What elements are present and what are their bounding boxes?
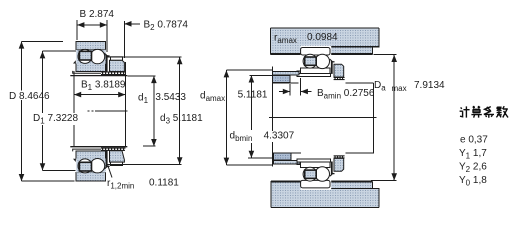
svg-text:5.1181: 5.1181 <box>238 90 268 101</box>
right view: ball left bottom <box>303 167 317 181</box>
svg-text:Y1 1,7: Y1 1,7 <box>459 148 487 161</box>
left view: sleeve thread teeth top <box>101 72 126 76</box>
left view: cage pocket rect top <box>79 51 91 60</box>
right view: washer tab top <box>331 61 333 74</box>
right view: sleeve step outline bottom <box>297 162 301 165</box>
char shu <box>496 106 508 117</box>
right view: ball right top <box>315 54 329 68</box>
left view: inner ring band bottom <box>76 151 105 159</box>
dimension r12min leader <box>108 166 112 178</box>
dimension d_bmin <box>248 75 273 158</box>
right view: shaft line top left <box>272 82 298 84</box>
left view: lock nut bottom <box>110 151 125 162</box>
right view: shaft line top right <box>346 82 374 84</box>
table: calculation factors heading (hand drawn CJK) <box>460 106 508 118</box>
svg-text:B 2.874: B 2.874 <box>80 9 115 20</box>
right view: lock nut top <box>334 64 344 77</box>
left view: band corner wedge bottom <box>73 159 76 162</box>
left view: shaft surface line bottom <box>70 146 127 148</box>
right view: sleeve step outline top <box>297 71 301 74</box>
right view: ball right bottom <box>315 167 329 181</box>
svg-text:Y2 2,6: Y2 2,6 <box>459 162 487 175</box>
left view: outer ring bottom band <box>76 173 106 181</box>
svg-text:Y0 1,8: Y0 1,8 <box>459 175 487 188</box>
left view: band corner wedge top <box>73 60 76 63</box>
left view: ball left top <box>78 49 92 63</box>
left view: nut washer slot bottom <box>111 162 123 165</box>
right view: sleeve protruding strip top <box>272 72 299 75</box>
left view: ball right top <box>90 49 104 63</box>
right view: bearing notch bottom (white) <box>301 180 332 190</box>
left view: cage pocket rect bottom <box>79 162 91 171</box>
left view: ball left bottom <box>78 159 92 173</box>
left view: sleeve step line top <box>73 71 101 73</box>
right view: nut teeth bottom <box>334 155 345 158</box>
left view: shaft surface line top <box>70 75 127 77</box>
svg-text:4.3307: 4.3307 <box>264 131 295 142</box>
svg-text:D 8.4646: D 8.4646 <box>9 91 50 102</box>
left view: sleeve thread teeth bottom <box>101 147 126 151</box>
left view: axis centerline <box>88 110 128 112</box>
dimension D1 <box>43 51 76 170</box>
right view: sleeve strip under bearing top <box>297 73 331 76</box>
dimension B1 <box>74 62 125 146</box>
right view: housing top block <box>271 28 379 55</box>
right view: housing bottom block <box>271 181 379 208</box>
right view: washer tab bottom <box>331 162 333 175</box>
right view: shaft left face <box>271 67 273 167</box>
left view: ball row ring fill bottom <box>76 158 105 172</box>
right view: shaft right end face <box>372 83 374 154</box>
svg-text:max: max <box>392 84 407 93</box>
right view: shaft line bottom left <box>272 152 301 154</box>
char ji3 <box>460 106 470 117</box>
dimension Da max <box>371 54 397 180</box>
svg-text:e 0,37: e 0,37 <box>460 135 488 146</box>
left view: washer tab bottom <box>106 150 108 167</box>
right view: axis centerline <box>269 117 377 119</box>
dimension B <box>77 20 107 52</box>
left view: nut washer slot top <box>111 57 123 60</box>
left view: sleeve step line bottom <box>73 149 101 151</box>
left view: washer tab top <box>106 55 108 72</box>
right view: cage pocket rect bottom <box>305 170 317 178</box>
dimension d1 <box>128 76 156 146</box>
svg-text:D1 7.3228: D1 7.3228 <box>33 113 78 126</box>
dimension D <box>22 41 75 181</box>
svg-text:0.1181: 0.1181 <box>149 178 179 189</box>
right view: bearing notch top (white) <box>301 46 332 56</box>
char xi <box>484 107 494 118</box>
right view: cage pocket rect top <box>305 57 317 65</box>
right view: inner ring band bottom white <box>301 162 330 168</box>
char suan <box>471 106 481 118</box>
dimension d3 <box>107 57 182 164</box>
right view: inner ring band top white <box>301 68 330 74</box>
right view: sleeve protruding strip bottom <box>273 161 300 164</box>
svg-text:0.0984: 0.0984 <box>307 32 338 43</box>
right view: outer ring bottom (white) <box>301 180 330 188</box>
left view: ball right bottom <box>90 159 104 173</box>
left view: inner ring band top <box>76 64 105 72</box>
right view: outer ring top (white) <box>301 48 330 56</box>
svg-text:3.5433: 3.5433 <box>155 92 186 103</box>
dimension B_amin <box>279 78 312 96</box>
right view: shaft line bottom right <box>346 152 374 154</box>
dimension B2 <box>124 21 140 58</box>
dimension d_amax <box>226 70 273 165</box>
right view: nut teeth top <box>334 77 345 80</box>
right view: sleeve strip under bearing bottom <box>297 159 331 162</box>
right view: lock nut bottom <box>334 158 344 171</box>
right view: ball left top <box>303 54 317 68</box>
left view: outer ring top band <box>76 41 106 49</box>
left view: lock nut top <box>110 60 125 71</box>
svg-text:7.9134: 7.9134 <box>414 80 445 91</box>
right view: abutment ring top <box>272 76 290 83</box>
left view: ball row ring fill top <box>76 50 105 64</box>
right view: abutment ring bottom <box>273 153 291 160</box>
